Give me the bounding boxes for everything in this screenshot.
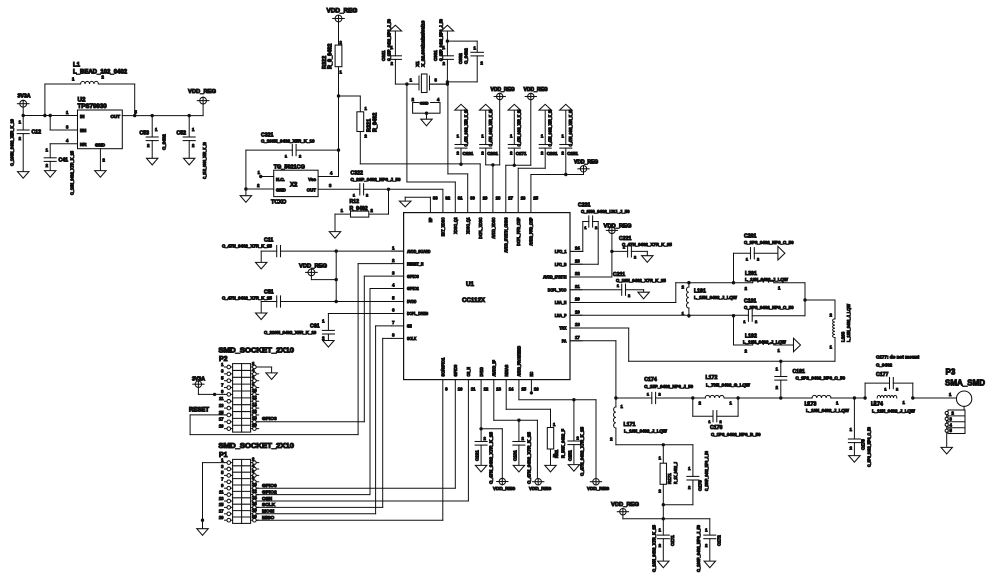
svg-text:IN: IN	[80, 114, 85, 119]
junction L193 branch	[803, 298, 806, 301]
svg-text:AVDD_PFD_CHP: AVDD_PFD_CHP	[529, 217, 534, 245]
P2 pin 12	[251, 395, 259, 403]
svg-text:C231: C231	[578, 203, 591, 209]
svg-text:C172: C172	[717, 535, 722, 546]
capacitor C11	[261, 246, 280, 263]
svg-text:P3: P3	[946, 368, 956, 377]
svg-text:VDD_REG: VDD_REG	[493, 486, 516, 491]
svg-text:C_100P_0402_NP0_J_50: C_100P_0402_NP0_J_50	[696, 524, 701, 572]
svg-text:2: 2	[896, 388, 898, 392]
svg-text:C_47N_0402_X7R_K_25: C_47N_0402_X7R_K_25	[580, 426, 585, 476]
svg-text:17: 17	[575, 335, 580, 340]
svg-text:13: 13	[219, 496, 224, 501]
P1 pin 20	[251, 514, 259, 522]
P2 pin 3	[221, 369, 232, 376]
svg-text:31: 31	[458, 196, 463, 201]
svg-text:AVDD_GUARD: AVDD_GUARD	[407, 249, 431, 254]
svg-text:14: 14	[252, 495, 257, 500]
junction L191 top	[687, 281, 690, 284]
svg-text:VDD_REG: VDD_REG	[611, 502, 640, 508]
P2 pin 9	[221, 389, 232, 396]
svg-text:C291: C291	[463, 151, 474, 156]
P2 pin 4	[251, 368, 259, 376]
svg-text:L_BEAD_102_0402: L_BEAD_102_0402	[73, 70, 128, 76]
P2 pin 15	[219, 410, 233, 417]
wire pin6 DCPL_DREG to C61	[328, 314, 403, 331]
wire 3V3A to rail	[22, 107, 24, 115]
capacitor C291	[455, 110, 467, 165]
ground below C171	[658, 561, 669, 568]
svg-text:C191: C191	[744, 299, 757, 305]
ground right of C221	[642, 256, 653, 263]
junction C321 right	[337, 148, 340, 151]
svg-text:1: 1	[708, 420, 710, 424]
P1 pin 1	[221, 457, 232, 464]
svg-text:DVDD: DVDD	[479, 367, 484, 376]
svg-text:DCPL_VCO: DCPL_VCO	[548, 287, 567, 292]
wire EN	[50, 116, 77, 131]
wire SCLK net	[257, 338, 392, 507]
ground below R41	[545, 465, 556, 472]
junction C151	[572, 398, 575, 401]
pin 2 RESET_N stub	[392, 258, 404, 264]
svg-text:15: 15	[219, 502, 224, 507]
wire pin17 PA net	[570, 341, 616, 398]
svg-text:L172: L172	[706, 375, 718, 381]
pin 21 DCPL_VCO stub	[570, 284, 582, 290]
pin 3 wire OUT of X2	[318, 188, 360, 190]
P1 pin 3	[221, 464, 232, 471]
svg-text:C_330P_0402_NP0_J_50: C_330P_0402_NP0_J_50	[704, 451, 709, 491]
svg-text:13: 13	[496, 387, 501, 392]
capacitor C271	[508, 110, 520, 165]
wire VDD_REG2 stem	[530, 100, 532, 166]
svg-text:GND: GND	[276, 188, 286, 193]
pin 22 AVDD_SYNTH stub	[570, 271, 582, 277]
wire pin20 LNA_N net	[570, 283, 734, 303]
svg-text:SMD_SOCKET_2X10: SMD_SOCKET_2X10	[218, 346, 294, 355]
svg-text:OUT: OUT	[111, 114, 121, 119]
P2 pin 5	[221, 376, 232, 383]
wire crystal pin3 to pin30	[448, 84, 468, 213]
svg-text:LFC_B: LFC_B	[555, 262, 567, 267]
svg-text:U1: U1	[466, 281, 474, 288]
inductor L192	[734, 316, 794, 345]
svg-text:LNA_N: LNA_N	[555, 300, 567, 305]
svg-text:L191: L191	[694, 289, 706, 295]
wire to VDD rail	[662, 505, 664, 519]
junction C181 top	[779, 360, 782, 363]
junction L192 branch	[732, 314, 735, 317]
wire pin 29 drop	[479, 164, 481, 213]
junction C302 top	[446, 39, 449, 42]
crystal X1	[407, 74, 448, 93]
P2 pin 8	[251, 381, 259, 389]
capacitor C201	[734, 248, 778, 283]
svg-text:PA: PA	[562, 339, 567, 344]
svg-text:10: 10	[252, 388, 257, 393]
P2 pin 11	[219, 396, 233, 403]
junction C171	[662, 517, 665, 520]
svg-text:GPIO0: GPIO0	[453, 364, 458, 376]
svg-text:3V3A: 3V3A	[192, 376, 205, 382]
capacitor C12	[17, 116, 29, 172]
junction PA rail	[614, 396, 617, 399]
wire R321 to pin29 net	[360, 163, 480, 165]
ground below C321	[240, 196, 251, 203]
svg-text:16: 16	[534, 387, 539, 392]
svg-text:TPS79930: TPS79930	[78, 103, 108, 110]
svg-text:23: 23	[575, 258, 580, 263]
svg-text:1: 1	[617, 284, 619, 288]
wire VDD_REG output rail	[122, 115, 203, 117]
svg-text:15: 15	[219, 410, 224, 415]
pin16 no connect stub	[530, 380, 533, 395]
svg-text:X_32.000/10/20/60/10: X_32.000/10/20/60/10	[421, 20, 426, 67]
svg-text:C_10N_0402_X7R_K_25: C_10N_0402_X7R_K_25	[652, 524, 657, 572]
capacitor C221	[612, 246, 647, 257]
svg-text:18: 18	[252, 416, 257, 421]
wire NR to C41	[50, 144, 77, 158]
ground right of L192	[794, 338, 801, 352]
inductor L172	[693, 395, 738, 398]
capacitor C52	[183, 116, 195, 159]
svg-text:AVDD_IF: AVDD_IF	[492, 360, 497, 377]
P2 pin 19	[219, 423, 233, 430]
wire RESET_N net	[190, 264, 391, 435]
junction C251	[564, 173, 567, 176]
junction R171	[662, 443, 665, 446]
svg-text:C173: C173	[698, 480, 703, 491]
capacitor C53	[146, 116, 158, 159]
P2 pin 2	[251, 361, 259, 369]
svg-text:12: 12	[252, 395, 257, 400]
ground below R12	[329, 232, 340, 239]
svg-text:L_10N_0402_J_LQW: L_10N_0402_J_LQW	[624, 429, 668, 434]
svg-text:X1: X1	[415, 61, 420, 67]
power symbol VDD_REG pfd	[578, 166, 589, 172]
ground above C261	[539, 104, 551, 110]
wire P2 pin2 to ground	[259, 367, 272, 373]
svg-text:C_220N_0402_X5R_K_10: C_220N_0402_X5R_K_10	[264, 330, 317, 335]
svg-text:17: 17	[219, 509, 224, 514]
svg-text:GPIO2: GPIO2	[407, 286, 419, 291]
power symbol VDD_REG xosc	[494, 93, 505, 99]
wire EXT_XOSC net to pin32	[442, 189, 444, 212]
svg-text:C_15P_0402_NP0_J_50: C_15P_0402_NP0_J_50	[439, 18, 444, 61]
P1 pin 9	[221, 483, 232, 490]
svg-text:R_0402: R_0402	[350, 206, 368, 212]
junction C322-R12	[387, 188, 390, 191]
svg-text:C_47N_0402_X7R_K_25: C_47N_0402_X7R_K_25	[222, 296, 272, 301]
svg-text:GPIO3: GPIO3	[262, 416, 277, 422]
junction at C52	[188, 114, 191, 117]
wire CS_N net	[257, 380, 468, 501]
svg-text:C251: C251	[567, 151, 578, 156]
wire pin1 AVDD_GUARD net	[281, 250, 403, 252]
svg-text:R_0_0402: R_0_0402	[328, 44, 334, 69]
svg-text:L_7N5_0402_G_LQW: L_7N5_0402_G_LQW	[706, 382, 751, 387]
P1 pin 4	[251, 463, 259, 471]
junction pin 28 drop	[491, 163, 494, 166]
svg-text:20: 20	[575, 297, 580, 302]
svg-text:L193: L193	[841, 331, 846, 342]
capacitor C121	[475, 429, 487, 466]
P1 pin 7	[221, 477, 232, 484]
capacitor C177 loop	[865, 378, 913, 399]
svg-text:C171: C171	[670, 535, 675, 546]
wire EP pin33 to ground	[405, 197, 430, 212]
inductor L173	[812, 395, 854, 398]
junction DVDD	[335, 300, 338, 303]
svg-text:30: 30	[470, 196, 475, 201]
svg-text:19: 19	[219, 423, 224, 428]
svg-text:C302: C302	[458, 53, 463, 64]
junction at L1 left	[43, 114, 46, 117]
wire pin25 net	[531, 174, 584, 176]
svg-text:11: 11	[219, 396, 224, 401]
svg-text:L_12N_0402_J_LQW: L_12N_0402_J_LQW	[745, 277, 789, 282]
svg-text:C_3P3_0402_NP0_C_50: C_3P3_0402_NP0_C_50	[744, 305, 794, 310]
ground at EP	[399, 201, 411, 207]
connector P3 SMA_SMD	[956, 391, 971, 406]
wire pin24 to C231	[570, 222, 583, 252]
svg-text:EXT_XOSC: EXT_XOSC	[441, 217, 446, 236]
ferrite bead L1	[45, 81, 135, 115]
resistor R12	[335, 189, 389, 231]
svg-text:C181: C181	[793, 369, 806, 375]
pin 17 PA stub	[570, 335, 582, 341]
junction C271	[513, 164, 516, 167]
svg-text:XOSC_Q2: XOSC_Q2	[453, 217, 458, 234]
capacitor C61	[322, 330, 334, 340]
P1 pin 13	[219, 496, 233, 503]
junction at C53	[151, 114, 154, 117]
P1 pin 14	[251, 495, 259, 503]
svg-text:VDD_REG: VDD_REG	[491, 87, 515, 93]
capacitor C174	[652, 392, 693, 403]
junction VDD mid	[335, 278, 338, 281]
svg-text:L_12N_0402_J_LQW: L_12N_0402_J_LQW	[743, 340, 787, 345]
ground above C271	[508, 104, 520, 110]
wire L171 bottom rail	[616, 444, 693, 446]
P1 pin 10	[251, 482, 259, 490]
svg-text:C151: C151	[567, 450, 572, 461]
svg-text:SCLK: SCLK	[262, 502, 276, 508]
svg-text:GPIO0: GPIO0	[262, 483, 277, 489]
svg-text:VDD_REG: VDD_REG	[299, 264, 328, 270]
wire rail to P3	[913, 397, 957, 399]
svg-text:16: 16	[252, 409, 257, 414]
svg-text:C174: C174	[644, 377, 657, 383]
svg-text:SMD_SOCKET_2X10: SMD_SOCKET_2X10	[218, 441, 294, 450]
svg-text:C271: C271	[516, 151, 527, 156]
ground below C51	[256, 313, 267, 320]
pin 4 wire Vcc of X2	[318, 176, 338, 178]
P3 ground pins block	[948, 406, 965, 433]
svg-text:2: 2	[634, 256, 636, 260]
svg-text:C175: C175	[861, 439, 866, 450]
capacitor C251	[560, 110, 572, 174]
svg-text:C_100N_0402_X5R_K_10: C_100N_0402_X5R_K_10	[261, 139, 315, 144]
capacitor C191	[748, 310, 805, 321]
svg-text:GND: GND	[95, 143, 106, 148]
svg-text:CSN: CSN	[262, 496, 273, 502]
svg-text:27: 27	[508, 196, 513, 201]
svg-text:C_0402: C_0402	[464, 48, 469, 64]
junction C173 bottom	[662, 503, 665, 506]
svg-text:MISO: MISO	[262, 515, 275, 521]
GND block of X1	[413, 100, 440, 119]
capacitor C231	[583, 216, 598, 227]
junction C181 bottom	[779, 396, 782, 399]
svg-text:VDD_REG: VDD_REG	[188, 89, 217, 95]
ground right of C211	[638, 292, 649, 299]
svg-text:C_3P6_0402_NP0_C_50: C_3P6_0402_NP0_C_50	[867, 426, 872, 467]
svg-text:EP: EP	[428, 217, 433, 222]
wire VDD_REG to pin28 net	[499, 100, 501, 165]
svg-text:1: 1	[884, 388, 886, 392]
svg-text:GPIO3: GPIO3	[407, 274, 419, 279]
svg-text:14: 14	[252, 402, 257, 407]
pin 6 DCPL_DREG stub	[392, 308, 404, 314]
power symbol VDD_REG avddif	[533, 479, 544, 485]
svg-text:AVDD_FRONTEND: AVDD_FRONTEND	[517, 346, 522, 377]
junction GND pin X2	[244, 187, 247, 190]
wire SO-MISO net	[257, 380, 443, 521]
wire pin 25 drop	[530, 175, 532, 213]
svg-text:C_2P2_0402_NP0_C_50: C_2P2_0402_NP0_C_50	[796, 376, 846, 381]
P1 pin 18	[251, 508, 259, 516]
svg-text:L_12N_0402_J_LQW: L_12N_0402_J_LQW	[846, 303, 851, 342]
ground below C172	[704, 561, 715, 568]
svg-text:C_1P6_0402_NP0_B_50: C_1P6_0402_NP0_B_50	[711, 432, 761, 437]
svg-text:21: 21	[575, 284, 580, 289]
svg-text:22: 22	[575, 271, 580, 276]
svg-text:19: 19	[219, 515, 224, 520]
power symbol VDD_REG at regulator	[197, 97, 209, 104]
P1 pin 2	[251, 456, 259, 464]
svg-text:XOSC_Q1: XOSC_Q1	[466, 217, 471, 234]
svg-text:TRX: TRX	[559, 326, 566, 331]
capacitor C261	[539, 110, 551, 168]
svg-text:L171: L171	[624, 422, 636, 428]
junction C131	[517, 419, 520, 422]
svg-text:11: 11	[219, 489, 224, 494]
pin 8 SCLK stub	[392, 333, 404, 339]
svg-text:2: 2	[659, 393, 661, 397]
svg-text:CC112X: CC112X	[462, 297, 486, 304]
svg-text:14: 14	[509, 387, 514, 392]
main RF rail segment 1	[616, 397, 652, 399]
power symbol VDD_REG synth2	[606, 227, 617, 233]
power symbol VDD_REG dvdd	[497, 478, 508, 484]
wire VDD_REG pa stem	[623, 515, 710, 519]
svg-text:1: 1	[647, 393, 649, 397]
wire C281 to pin 28	[486, 164, 500, 166]
junction at EN branch	[49, 114, 52, 117]
pin 2 wire GND of X2	[246, 188, 274, 190]
svg-text:C_47N_0402_X5R_K_25: C_47N_0402_X5R_K_25	[488, 109, 493, 147]
capacitor C311	[389, 31, 407, 84]
svg-text:11: 11	[471, 387, 476, 392]
capacitor C175	[848, 398, 860, 456]
svg-text:C_47N_0402_X5R_K_25: C_47N_0402_X5R_K_25	[548, 109, 553, 147]
svg-text:32: 32	[445, 196, 450, 201]
wire right side loop	[804, 283, 806, 316]
svg-text:C_47N_0402_X7R_K_25: C_47N_0402_X7R_K_25	[622, 242, 672, 247]
wire 3V3A to P2 pin9	[198, 387, 224, 396]
power symbol VDD_REG pa	[617, 509, 628, 515]
wire pin14 to R41	[506, 380, 550, 428]
svg-text:2: 2	[757, 258, 759, 262]
inductor L201	[734, 280, 806, 283]
junction crystal pin1	[405, 82, 408, 85]
junction C201 branch	[732, 281, 735, 284]
ground below C11	[256, 262, 267, 269]
svg-text:C_47N_0402_X5R_K_25: C_47N_0402_X5R_K_25	[517, 109, 522, 147]
junction C121	[479, 427, 482, 430]
svg-text:C301: C301	[433, 50, 438, 61]
junction C291 bottom	[459, 163, 462, 166]
svg-text:C53: C53	[139, 131, 149, 137]
svg-text:C131: C131	[512, 450, 517, 461]
ground below C131	[513, 465, 524, 472]
svg-text:C201: C201	[744, 234, 757, 240]
wire pin5 DVDD net	[281, 301, 403, 303]
svg-text:29: 29	[483, 196, 488, 201]
wire GPIO0 net	[257, 380, 455, 489]
svg-text:1: 1	[623, 246, 625, 250]
svg-text:LFC_1: LFC_1	[555, 249, 567, 254]
junction C302 bottom	[446, 80, 449, 83]
P1 pin 17	[219, 509, 233, 516]
svg-text:12: 12	[484, 387, 489, 392]
ground above C311	[389, 25, 401, 31]
IC U2 TPS79930	[78, 110, 123, 149]
junction C221	[610, 250, 613, 253]
svg-text:1: 1	[285, 155, 287, 159]
svg-text:LNA_P: LNA_P	[555, 313, 567, 318]
wire GPIO2 net	[257, 289, 392, 495]
junction L191 bottom	[687, 314, 690, 317]
svg-text:2: 2	[595, 226, 597, 230]
P1 pin 15	[219, 502, 233, 509]
P1 pin 11	[219, 489, 233, 496]
svg-text:VDD_REG: VDD_REG	[587, 486, 610, 491]
svg-text:2: 2	[628, 294, 630, 298]
power symbol VDD_REG top	[333, 15, 345, 22]
wire VDD_REG stem	[202, 104, 204, 116]
pin 4 GPIO2 stub	[392, 283, 404, 289]
P1 pin 5	[221, 470, 232, 477]
svg-text:SI: SI	[407, 324, 412, 329]
svg-text:TG_5021CG: TG_5021CG	[274, 165, 305, 171]
pin 24 LFC_1 stub	[570, 246, 582, 252]
svg-text:C_47N_0402_X7R_K_25: C_47N_0402_X7R_K_25	[222, 244, 272, 249]
junction GND block	[425, 112, 428, 115]
svg-text:28: 28	[496, 196, 501, 201]
wire pin 28 drop	[492, 165, 494, 213]
junction L172 left	[691, 396, 694, 399]
wire VDD_REG mid vertical	[335, 251, 337, 301]
power symbol VDD_REG mid	[306, 269, 318, 276]
capacitor C301	[441, 31, 453, 84]
svg-text:DVDD: DVDD	[407, 299, 416, 304]
junction L172 right	[736, 396, 739, 399]
wire pin 27 drop	[505, 165, 507, 212]
ground below U2	[95, 171, 106, 178]
